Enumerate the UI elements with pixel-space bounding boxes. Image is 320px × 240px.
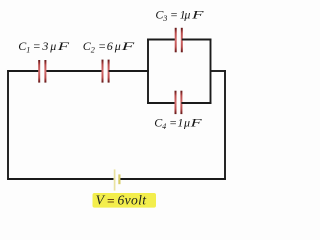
svg-text:C3=1μF: C3=1μF — [155, 8, 204, 24]
svg-text:C4=1μF: C4=1μF — [154, 115, 202, 131]
label V value — [96, 192, 148, 208]
wire bottom right segment — [120, 178, 225, 180]
wire left rail — [7, 70, 9, 180]
label C3 value — [155, 8, 204, 24]
capacitor C4 — [175, 91, 183, 114]
label V value highlight — [93, 193, 157, 208]
capacitor C3 — [175, 28, 183, 53]
label C4 value — [154, 115, 202, 131]
capacitor C1 — [38, 60, 46, 83]
label C1 value — [18, 39, 70, 55]
svg-text:C1=3μF: C1=3μF — [18, 39, 70, 55]
node parallel-box right edge — [210, 39, 212, 104]
wire C1 to C2 — [46, 70, 102, 72]
wire box bottom edge right — [181, 102, 211, 104]
wire C2 to parallel box — [109, 70, 149, 72]
wire bottom left segment — [7, 178, 113, 180]
wire box top edge left — [147, 39, 176, 41]
wire box top edge right — [182, 39, 212, 41]
wire box to right rail — [211, 70, 226, 72]
svg-text:C2=6μF: C2=6μF — [83, 39, 136, 55]
wire box bottom edge left — [147, 102, 175, 104]
node parallel-box left edge — [147, 39, 149, 104]
label C2 value — [83, 39, 136, 55]
wire right rail — [224, 70, 226, 180]
wire top-left segment — [7, 70, 39, 72]
svg-text:V=6volt: V=6volt — [96, 192, 148, 208]
battery V — [115, 169, 120, 190]
capacitor C2 — [102, 60, 110, 83]
